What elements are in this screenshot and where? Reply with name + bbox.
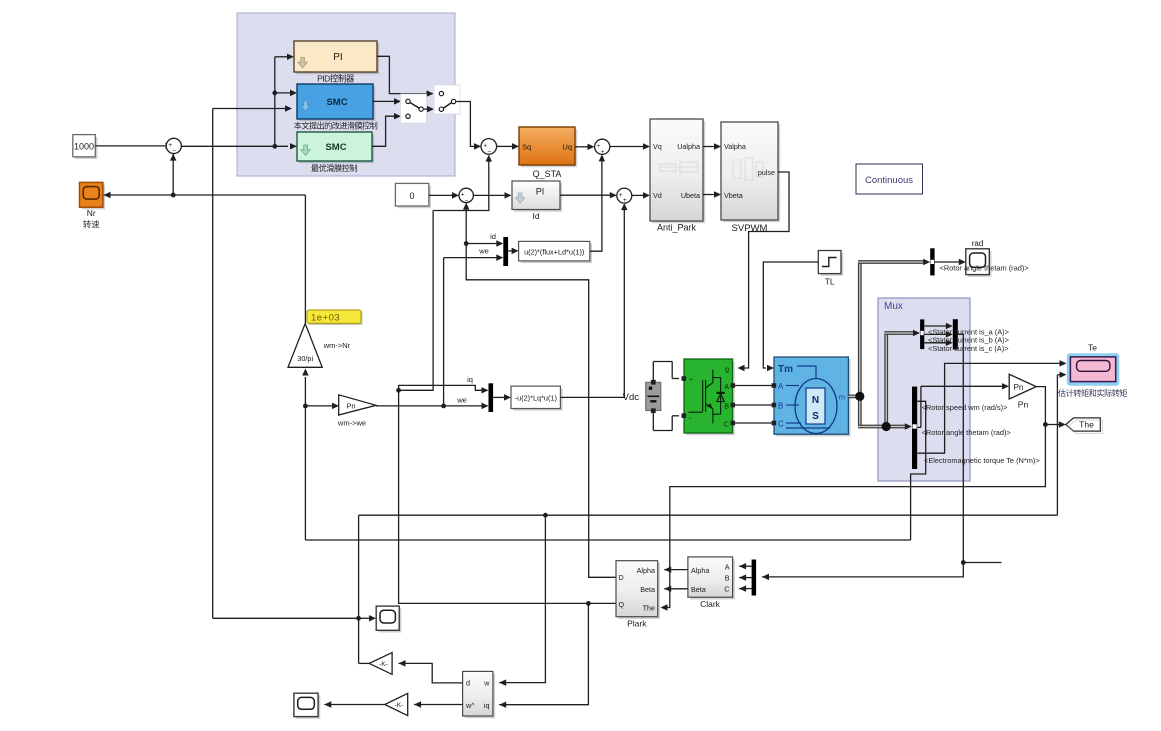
svg-text:<Rotor angle thetam (rad)>: <Rotor angle thetam (rad)> (940, 263, 1029, 272)
wire Clark Beta to Plark Beta (664, 588, 688, 590)
wire: wm net risers right side x=910.6,925.7 jog (911, 401, 926, 540)
svg-text:Vdc: Vdc (623, 392, 640, 403)
wire Ualpha to Valpha (703, 146, 715, 148)
bus wire up to rad selector (858, 261, 862, 398)
subsystem block SMC blue (proposed improved SMC) (299, 86, 375, 121)
svg-text:C: C (724, 585, 729, 594)
bus selector for rotor angle (rad) (930, 248, 934, 275)
svg-text:−: − (487, 148, 491, 155)
svg-text:Beta: Beta (640, 585, 655, 594)
svg-text:SMC: SMC (325, 142, 346, 153)
wire: electromagnetic torque to Te scope input1 (918, 363, 1061, 453)
wire Pn output (we) with branch to mux1 (376, 405, 482, 407)
wire phase A bridge to motor (735, 385, 772, 387)
constant block 1000 (75, 137, 98, 159)
svg-text:The: The (643, 604, 655, 613)
wire is_a selector to mux (924, 325, 946, 327)
svg-text:PI: PI (333, 52, 342, 63)
svg-text:-K-: -K- (395, 702, 403, 709)
wire we into mux1 (444, 257, 497, 259)
wire: wm net vertical x=305.4 (to 30/pi and Pn) (304, 377, 306, 540)
powergui block Continuous (856, 164, 923, 194)
svg-text:Anti_Park: Anti_Park (657, 223, 697, 233)
wire Clark Alpha to Plark Alpha (664, 569, 688, 571)
svg-text:we: we (478, 247, 489, 256)
svg-text:Plark: Plark (627, 619, 647, 629)
svg-text:A: A (724, 382, 729, 391)
svg-text:+: + (601, 148, 605, 155)
svg-text:B: B (724, 402, 729, 411)
wire: long wm measured net y=540 (305, 539, 910, 541)
step block TL (load torque) (821, 253, 844, 276)
subsystem block Plark (Park transform) (618, 563, 660, 619)
svg-text:Pn: Pn (346, 401, 355, 410)
wire Q_STA to sum3 (575, 146, 588, 148)
svg-text:d: d (466, 679, 470, 688)
subsystem block Q_STA (super-twisting controller, orange) (521, 129, 577, 167)
svg-text:The: The (1079, 419, 1094, 429)
wire sum3 to Anti_Park Vq (610, 146, 644, 148)
svg-text:Id: Id (532, 211, 539, 221)
gain block Pn (pole pairs, right) (1009, 374, 1036, 399)
svg-text:估计转矩和实际转矩: 估计转矩和实际转矩 (1058, 388, 1128, 398)
area annotation: Mux measurement region (878, 298, 970, 481)
gain block 30/pi (triangle up) (288, 324, 322, 368)
svg-text:iq: iq (467, 375, 473, 384)
port squares motor inputs A B C (772, 383, 777, 388)
svg-text:−: − (465, 197, 469, 204)
junction + wire to SMC blue input1 (272, 91, 277, 96)
svg-text:A: A (778, 382, 784, 391)
junction id branch (464, 241, 469, 246)
svg-text:+: + (623, 197, 627, 204)
subsystem block SVPWM (723, 124, 780, 222)
mux block mux2 (489, 383, 494, 412)
svg-text:Ualpha: Ualpha (677, 142, 700, 151)
mux block stator currents (953, 319, 958, 349)
constant block 0 (398, 186, 431, 209)
svg-text:w^: w^ (465, 701, 475, 710)
svg-text:<Electromagnetic torque Te (N*: <Electromagnetic torque Te (N*m)> (924, 456, 1040, 465)
wire iq net from Plark Q (399, 385, 616, 603)
wire iq feedback into sum2 bottom (433, 161, 489, 211)
svg-text:<Stator current is_c (A)>: <Stator current is_c (A)> (928, 344, 1009, 353)
universal bridge block (IGBT inverter, green) (686, 361, 735, 435)
subsystem block PI (speed PID controller) (296, 43, 379, 74)
subsystem block Clark (Clarke transform) (690, 559, 735, 599)
wire estimator w^ output to gain2 (414, 704, 463, 706)
svg-text:<Rotor speed wm (rad/s)>: <Rotor speed wm (rad/s)> (922, 403, 1008, 412)
gain block -K- (speed estimate) (385, 693, 408, 715)
wire PI output to switch2 (377, 56, 427, 93)
wire id feedback into sum4 bottom (465, 209, 467, 244)
wire sum1 output to controllers (181, 145, 288, 147)
svg-text:Sq: Sq (522, 143, 531, 152)
svg-text:Vbeta: Vbeta (724, 191, 743, 200)
svg-text:Continuous: Continuous (865, 175, 913, 186)
wire mux2 to fcn2 (493, 396, 504, 398)
svg-text:30/pi: 30/pi (297, 354, 313, 363)
wire demux to Clark B (739, 577, 752, 579)
wire 1000 to sum1 (95, 145, 166, 147)
svg-text:Vd: Vd (653, 191, 662, 200)
svg-text:B: B (778, 402, 783, 411)
wire fcn1 to sum3 bottom (590, 161, 602, 251)
bus junction dot 2 (882, 422, 891, 431)
wire: torque-estimate net vertical x=213 (SMC in2 / scope / Te) (212, 109, 214, 619)
dc voltage source Vdc (652, 362, 654, 383)
wire: long net-S horizontal y=515.2 to Te scope input2 (359, 514, 1058, 516)
wire is_b selector to mux (924, 333, 946, 335)
junction iq to estimator branch (586, 601, 591, 606)
svg-text:转速: 转速 (83, 220, 101, 230)
wire pulse to bridge gate g (740, 172, 789, 368)
svg-text:g: g (725, 365, 729, 374)
svg-text:最优滑膜控制: 最优滑膜控制 (311, 163, 357, 173)
sum junction sum5 (Vd sum) (617, 188, 632, 203)
wire demux to Clark A (739, 565, 752, 567)
wire: rotor angle stub y=427.4 (918, 426, 921, 428)
svg-text:Te: Te (1088, 343, 1097, 353)
svg-text:Q_STA: Q_STA (533, 169, 562, 179)
manual switch 1 (white block) (401, 94, 427, 123)
bus wire up to stator-current selector (884, 332, 888, 428)
junction iq to sum2 branch (396, 388, 401, 393)
arrow into 30/pi gain (302, 369, 308, 376)
svg-text:Pn: Pn (1018, 400, 1029, 410)
bus selector stator currents (920, 319, 924, 349)
svg-text:-K-: -K- (379, 661, 387, 668)
svg-text:Clark: Clark (700, 599, 721, 609)
svg-text:本文提出的改进滑膜控制: 本文提出的改进滑膜控制 (294, 121, 378, 131)
bus junction dot 1 (855, 392, 864, 401)
svg-text:1e+03: 1e+03 (311, 313, 340, 324)
svg-text:Nr: Nr (87, 208, 96, 218)
svg-text:Ubeta: Ubeta (681, 191, 700, 200)
svg-text:+: + (689, 377, 693, 384)
display block 1e+03 (yellow) (309, 312, 363, 325)
svg-text:wm->we: wm->we (337, 419, 366, 428)
wire phase C bridge to motor (735, 422, 772, 424)
arrow into SMC green input (290, 143, 297, 149)
wire id into mux1 (466, 243, 497, 245)
svg-text:C: C (778, 420, 784, 429)
demux block for stator currents (752, 560, 757, 596)
svg-text:1000: 1000 (74, 142, 94, 152)
port squares bridge outputs A B C (731, 383, 736, 388)
fcn block u(2)*(flux+Ld*u(1)) (521, 244, 592, 264)
wire: rotor speed branch to Pn2 gain (918, 400, 921, 402)
bus wire from motor m output (848, 394, 860, 398)
svg-text:A: A (725, 562, 730, 571)
wire: net-S vertical x=358.6 and scope1 entry (358, 515, 360, 663)
svg-text:B: B (725, 574, 730, 583)
wire sum5 to Anti_Park Vd (632, 194, 644, 196)
wire is_c selector to mux (924, 342, 946, 344)
goto tag The (1066, 418, 1101, 431)
scope block Nr (orange) (82, 185, 105, 210)
bus selector rotor signals (speed/angle/torque) (912, 387, 917, 469)
svg-text:0: 0 (409, 191, 414, 201)
wire: scope1 horizontal y=618.3 (213, 617, 359, 619)
wire estimator d output to gain1 (399, 663, 463, 683)
svg-text:SMC: SMC (326, 97, 347, 108)
svg-text:Vq: Vq (653, 142, 662, 151)
svg-text:we: we (456, 396, 467, 405)
wire TL to motor Tm (763, 262, 818, 368)
svg-text:w: w (483, 679, 490, 688)
wire selector to rad scope (935, 261, 960, 263)
svg-text:TL: TL (825, 277, 835, 287)
wire: wm to Pn gain (y=405.9) (305, 405, 333, 407)
wire switch1 output to switch2 (424, 108, 428, 110)
svg-text:-u(2)*Lq*u(1): -u(2)*Lq*u(1) (515, 394, 557, 403)
svg-text:Mux: Mux (884, 301, 903, 312)
wire Pn output to The tag and Plark The (666, 387, 1045, 608)
svg-text:N: N (812, 395, 819, 406)
svg-text:<Rotor angle thetam (rad)>: <Rotor angle thetam (rad)> (922, 428, 1011, 437)
wire: SMC in2 feed (y=108.5) (213, 108, 286, 110)
scope block scope1 (378, 608, 401, 632)
svg-text:u(2)*(flux+Ld*u(1)): u(2)*(flux+Ld*u(1)) (524, 248, 584, 257)
subsystem block SMC green (optimal SMC) (299, 134, 374, 163)
wire PI(Id) to sum5 (560, 194, 610, 196)
sum junction sum3 (Uq + decoupling) (595, 139, 610, 154)
scope block Te (selected, pink with cyan halo) (1067, 353, 1120, 386)
svg-text:rad: rad (972, 239, 984, 248)
svg-text:−: − (172, 148, 176, 155)
svg-text:Beta: Beta (691, 585, 706, 594)
junction dot at controller input split (272, 144, 277, 149)
mux block mux1 (503, 237, 508, 266)
svg-text:PID控制器: PID控制器 (317, 74, 355, 84)
svg-text:Tm: Tm (778, 364, 793, 375)
svg-text:Pn: Pn (1014, 383, 1024, 392)
wire mux1 to fcn1 (508, 250, 512, 252)
svg-text:Q: Q (619, 600, 625, 609)
wire stator mux output down to Clark demux (762, 334, 963, 577)
svg-text:PI: PI (536, 187, 545, 197)
svg-text:m: m (839, 393, 845, 402)
area annotation: controller selection region (237, 13, 455, 176)
svg-text:SVPWM: SVPWM (732, 223, 768, 234)
wire gain1 output to net-S (359, 662, 370, 664)
manual switch 2 (white block) (434, 85, 460, 114)
junction dot to The goto tag (1043, 422, 1048, 427)
svg-text:D: D (619, 573, 624, 582)
wire id net: Plark D to sum4/mux1 (466, 244, 616, 578)
wire w input from net-S (499, 515, 545, 682)
svg-text:Alpha: Alpha (637, 566, 655, 575)
svg-text:id: id (490, 232, 496, 241)
gain block Pn (wm->we) (339, 395, 376, 415)
svg-text:pulse: pulse (758, 168, 775, 177)
wire to PI controller input (275, 56, 288, 58)
PMSM motor block (blue) (776, 359, 850, 436)
svg-text:S: S (812, 411, 819, 422)
gain block -K- (torque estimate) (369, 653, 392, 675)
estimator block d/w^ (465, 674, 495, 719)
svg-text:Alpha: Alpha (691, 566, 709, 575)
svg-text:wm->Nr: wm->Nr (323, 341, 351, 350)
arrow into Nr scope (104, 192, 111, 198)
wire 0 to sum4 (429, 194, 453, 196)
sum junction sum2 (Sq error) (481, 139, 497, 155)
sum junction sum4 (Id error) (459, 188, 473, 202)
wire gain2 to scope2 (324, 704, 384, 706)
svg-text:Uq: Uq (562, 143, 572, 152)
subsystem block PI Id current controller (514, 183, 562, 212)
junction: wm to sum1 (171, 193, 176, 198)
svg-text:C: C (724, 420, 729, 429)
wire sum2 to Q_STA (497, 145, 513, 147)
svg-text:iq: iq (484, 701, 490, 710)
svg-text:Valpha: Valpha (724, 142, 746, 151)
wire Ubeta to Vbeta (703, 194, 715, 196)
bus wire down to selector2 (858, 396, 862, 427)
wire switch2 output to sum2 (456, 102, 474, 147)
junction + dangling stub (961, 560, 966, 565)
wire demux to Clark C (739, 588, 752, 590)
arrow we into mux2 (482, 403, 489, 409)
junction w-input on net-S (543, 513, 548, 518)
wire fcn2 to sum5 bottom (560, 210, 624, 398)
wire: speed feedback wm (y=195) to Nr scope and sum1 (103, 194, 305, 196)
wire controller input riser x=274.8 (274, 57, 276, 147)
sum junction sum1 (speed error) (166, 138, 181, 153)
fcn block -u(2)*Lq*u(1) (513, 388, 562, 410)
wire SMC green output to switch1 lower input (372, 116, 395, 146)
wire: net-S rise x=1057.4 to Te in2 (1056, 375, 1058, 516)
wire SMC blue output to switch1 (373, 100, 395, 102)
scope block scope2 (296, 695, 320, 718)
subsystem block Anti_Park (652, 121, 705, 223)
scope block rad (968, 251, 992, 277)
wire sum4 to PI(Id) (473, 194, 505, 196)
wire phase B bridge to motor (735, 404, 772, 406)
